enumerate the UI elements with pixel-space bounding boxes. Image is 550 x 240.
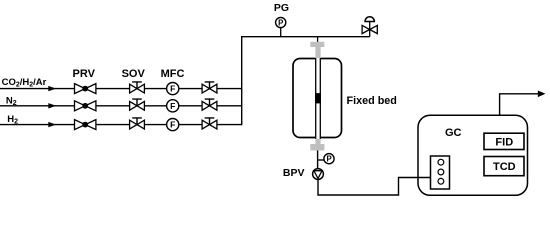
svg-text:CO2/H2/Ar: CO2/H2/Ar xyxy=(2,77,47,89)
svg-text:F: F xyxy=(170,101,175,111)
svg-text:SOV: SOV xyxy=(122,68,146,80)
svg-text:GC: GC xyxy=(445,127,462,139)
svg-text:MFC: MFC xyxy=(161,68,185,80)
svg-text:FID: FID xyxy=(495,136,513,148)
svg-text:PRV: PRV xyxy=(72,68,95,80)
svg-text:BPV: BPV xyxy=(283,167,305,179)
svg-text:F: F xyxy=(170,84,175,94)
svg-text:Fixed bed: Fixed bed xyxy=(347,95,397,107)
svg-text:P: P xyxy=(278,18,283,27)
svg-text:F: F xyxy=(170,120,175,130)
svg-text:PG: PG xyxy=(274,2,289,14)
svg-text:P: P xyxy=(326,155,331,164)
svg-text:TCD: TCD xyxy=(493,161,516,173)
